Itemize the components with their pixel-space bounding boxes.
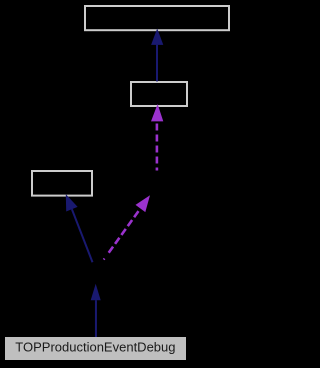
svg-text:TOPProductionEventDebug: TOPProductionEventDebug (15, 339, 175, 354)
